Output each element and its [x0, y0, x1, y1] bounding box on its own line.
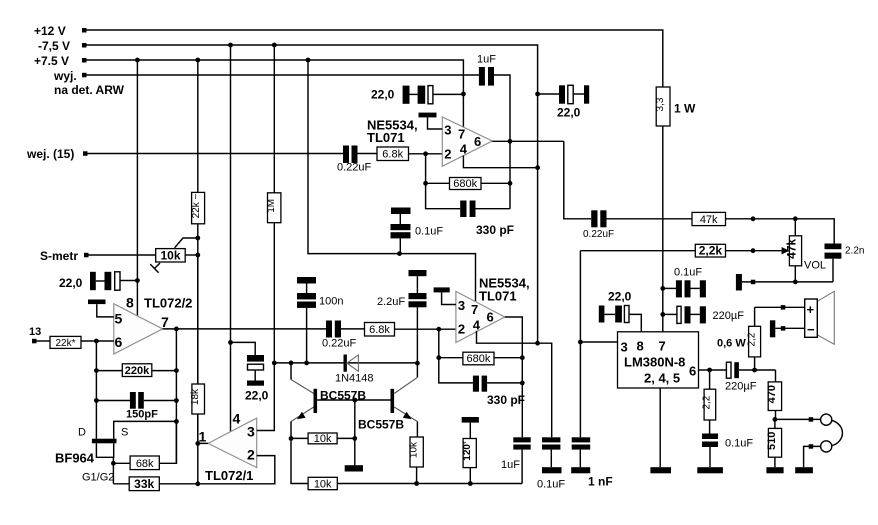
wire +7.5V drop to op2 pin7: [308, 60, 476, 302]
svg-text:33k: 33k: [134, 477, 154, 491]
resistor 220k: [96, 364, 176, 377]
resistor 680k (op2 feedback): [436, 329, 522, 383]
svg-text:0,6 W: 0,6 W: [717, 338, 746, 350]
svg-text:5: 5: [115, 311, 123, 327]
node wyj. na det. ARW label: [53, 69, 125, 97]
svg-text:3,3: 3,3: [655, 97, 666, 111]
svg-text:680k: 680k: [453, 178, 477, 190]
ground bar at TL072/2 pin5: [88, 300, 114, 317]
svg-text:TL072/2: TL072/2: [144, 296, 192, 311]
svg-text:6: 6: [115, 334, 123, 350]
headphone jack J1: [775, 414, 843, 473]
potentiometer 10k (S-metr): [156, 249, 201, 263]
capacitor 2.2uF (to ground above): [377, 270, 427, 366]
capacitor 0.22uF (TL072/2 out coupling): [322, 321, 365, 350]
svg-text:1M: 1M: [266, 199, 277, 213]
svg-text:3: 3: [444, 123, 451, 138]
svg-text:2,2k: 2,2k: [699, 244, 723, 258]
resistor 470: [766, 370, 782, 419]
svg-text:2,2: 2,2: [747, 332, 758, 346]
svg-text:7: 7: [659, 339, 666, 354]
svg-text:220k: 220k: [125, 365, 150, 377]
capacitor 22,0 (vertical electrolytic at TL072/1): [228, 340, 269, 403]
svg-text:1 nF: 1 nF: [588, 475, 613, 489]
svg-text:2: 2: [458, 322, 465, 337]
svg-text:S: S: [121, 427, 128, 439]
op-amp U2 NE5534/TL071: [367, 117, 492, 166]
capacitor 0.22uF (op1 out to 47k): [564, 141, 692, 240]
capacitor 0.1uF (op2 V- decoupling): [537, 437, 565, 490]
svg-text:2, 4, 5: 2, 4, 5: [644, 371, 680, 386]
capacitor 0.1uF (snubber): [697, 434, 753, 474]
capacitor 1uF (wyj. ARW output): [477, 54, 510, 209]
resistor 680k (op1 feedback): [423, 154, 512, 209]
capacitor 22,0 (bypass +7.5 at op1): [371, 86, 463, 104]
wire 2,2k corner down to LM380 pin3 and 1nF: [578, 251, 618, 438]
wire feedback left rail (pin6 to drain): [94, 341, 99, 439]
resistor 33k: [113, 477, 200, 491]
capacitor 1nF: [571, 437, 612, 488]
wire -7.5V rail: [82, 43, 540, 346]
resistor 10k (bottom row): [291, 438, 522, 490]
svg-text:10k: 10k: [314, 433, 332, 445]
svg-text:22,0: 22,0: [371, 88, 395, 102]
svg-text:D: D: [78, 427, 86, 439]
wire op2 pin4 to -7.5V and 0.1uF: [477, 331, 552, 438]
capacitor 150pF: [96, 392, 176, 421]
svg-text:G1/G2: G1/G2: [82, 472, 114, 484]
svg-text:220µF: 220µF: [725, 381, 757, 393]
capacitor 22,0 (bypass at TL072/2 pin8): [59, 272, 140, 290]
svg-text:10k: 10k: [314, 478, 332, 490]
svg-text:150pF: 150pF: [126, 409, 158, 421]
wiper arrow of 10k pot: [150, 236, 200, 273]
resistor 2,2k (to LM380 input): [580, 244, 789, 258]
svg-text:+12 V: +12 V: [34, 24, 66, 38]
svg-text:4: 4: [473, 318, 481, 333]
svg-text:BF964: BF964: [55, 451, 95, 466]
wire op1 output node: [492, 139, 564, 144]
svg-text:4: 4: [233, 411, 241, 427]
svg-text:0.1uF: 0.1uF: [725, 438, 753, 450]
wire -7.5V drop to TL072/1 pin4: [230, 45, 232, 432]
svg-text:wyj.: wyj.: [53, 69, 77, 83]
svg-text:6: 6: [487, 310, 494, 325]
svg-text:4: 4: [460, 142, 468, 157]
capacitor 120' (boxed, to ground above): [462, 417, 479, 484]
svg-text:8: 8: [637, 339, 644, 354]
svg-text:10k: 10k: [409, 441, 420, 458]
resistor 22k~ (vertical, from +7.5V): [191, 60, 205, 384]
svg-text:510: 510: [766, 432, 778, 450]
svg-text:0.1uF: 0.1uF: [674, 267, 702, 279]
svg-text:3: 3: [458, 298, 465, 313]
wire S-metr line: [84, 253, 156, 257]
svg-text:680k: 680k: [466, 353, 490, 365]
svg-text:330 pF: 330 pF: [487, 393, 525, 407]
wire wej input line: [83, 151, 343, 156]
speaker LS1: [805, 291, 835, 344]
capacitor 1uF (op2 out to AGC line): [501, 437, 531, 483]
wire feedback right rail (output down): [174, 329, 179, 463]
resistor 2,2 (snubber): [702, 370, 716, 434]
transistor Q2 BC557B (mirrored): [358, 363, 417, 437]
ground bar (speaker -): [770, 320, 805, 337]
resistor 10k (vertical at Q2 emitter): [409, 437, 424, 484]
svg-text:+: +: [807, 302, 815, 317]
resistor 22k* (input): [50, 336, 114, 348]
wire speaker +: [755, 305, 805, 310]
resistor 47k: [692, 212, 834, 243]
resistor 10k (emitter-base): [289, 433, 355, 445]
capacitor 100n (to ground above): [297, 277, 343, 363]
svg-text:22k*: 22k*: [55, 338, 75, 349]
svg-text:22,0: 22,0: [59, 276, 83, 290]
wire +12V rail: [82, 28, 663, 87]
resistor 68k: [113, 421, 176, 469]
svg-text:7: 7: [161, 314, 169, 330]
svg-text:10k: 10k: [160, 249, 180, 263]
svg-text:100n: 100n: [319, 296, 343, 308]
svg-text:18k: 18k: [190, 388, 201, 405]
svg-text:68k: 68k: [136, 458, 154, 470]
svg-text:6: 6: [474, 134, 481, 149]
svg-text:VOL: VOL: [804, 260, 826, 272]
op-amp U3 NE5534/TL071: [456, 276, 530, 343]
resistor 6.8k (op1 input): [377, 147, 442, 161]
resistor 6.8k (op2 input): [365, 323, 456, 337]
svg-text:0.22uF: 0.22uF: [583, 229, 614, 240]
svg-text:0.22uF: 0.22uF: [322, 338, 357, 350]
resistor 510: [766, 417, 784, 473]
op-amp U1a TL072/1 (points left): [199, 411, 257, 484]
resistor 3,3 1W (from +12V): [655, 87, 696, 332]
wire TL072/1 output and feedback loop: [195, 414, 274, 484]
capacitor 0.1uF (op2 supply decoupling): [391, 208, 444, 254]
svg-text:3: 3: [247, 424, 255, 440]
wire op1 pin4 to -7.5V: [463, 156, 537, 168]
svg-text:-7,5 V: -7,5 V: [38, 39, 70, 53]
ground bar at op2 pin3: [434, 287, 456, 304]
svg-text:TL072/1: TL072/1: [205, 468, 253, 483]
svg-text:6.8k: 6.8k: [382, 149, 403, 161]
svg-text:1uF: 1uF: [477, 54, 496, 66]
wire LM380 pin6 output: [699, 368, 727, 373]
ground bar (bases): [345, 465, 363, 471]
svg-text:+7.5 V: +7.5 V: [34, 54, 69, 68]
potentiometer 47k VOL: [785, 219, 827, 282]
svg-text:330 pF: 330 pF: [476, 223, 514, 237]
svg-text:2,2: 2,2: [702, 395, 713, 409]
op-amp U1b TL072/2: [114, 295, 193, 355]
svg-text:120‛: 120‛: [462, 441, 473, 461]
wire wyj. rail to 1uF: [82, 73, 479, 78]
svg-text:wej. (15): wej. (15): [26, 147, 74, 161]
svg-text:BC557B: BC557B: [358, 418, 404, 432]
capacitor 22,0 (bypass -7.5V): [538, 85, 590, 119]
wire LM380 ground pins 2,4,5: [650, 388, 671, 473]
svg-text:−: −: [807, 322, 815, 337]
svg-text:7: 7: [471, 302, 478, 317]
svg-text:1 W: 1 W: [674, 102, 696, 116]
svg-text:2.2uF: 2.2uF: [377, 296, 405, 308]
svg-text:47k: 47k: [700, 214, 718, 226]
wire +7.5V drop to TL072/2 pin 8: [136, 60, 138, 316]
svg-text:TL071: TL071: [479, 289, 517, 304]
svg-text:na det. ARW: na det. ARW: [54, 83, 125, 97]
svg-text:3: 3: [621, 340, 628, 355]
svg-text:22,0: 22,0: [245, 389, 269, 403]
svg-text:2.2n: 2.2n: [845, 246, 864, 257]
capacitor 2.2n: [825, 244, 865, 282]
svg-text:47k: 47k: [785, 238, 799, 258]
svg-text:TL071: TL071: [367, 130, 405, 145]
wire TL072/2 output node: [163, 327, 326, 332]
transistor Q1 BC557B: [291, 363, 366, 439]
node 13 input: [29, 326, 50, 343]
svg-text:LM380N-8: LM380N-8: [624, 355, 685, 370]
ground bar at op1 pin3: [419, 113, 443, 129]
svg-text:2: 2: [444, 147, 451, 162]
wire +7.5V rail: [82, 58, 466, 128]
capacitor 22,0 (LM380 pin8 bypass): [599, 290, 642, 332]
wire base to ground: [352, 400, 357, 466]
svg-text:6.8k: 6.8k: [369, 324, 390, 336]
svg-text:0.1uF: 0.1uF: [415, 226, 443, 238]
svg-text:0.1uF: 0.1uF: [537, 479, 565, 491]
ground bar (volume return): [736, 274, 833, 291]
capacitor 0.22uF (wej input): [337, 146, 377, 174]
svg-text:S-metr: S-metr: [40, 249, 78, 263]
resistor 1M (vertical, from -7.5V): [266, 45, 281, 363]
svg-text:1uF: 1uF: [501, 459, 520, 471]
wire base line Q1-Q2: [317, 398, 390, 403]
capacitor 330pF (op2 feedback): [473, 376, 525, 407]
svg-text:0.22uF: 0.22uF: [337, 162, 372, 174]
transistor Q3 BF964 (dual-gate MOSFET): [55, 421, 176, 483]
capacitor 220uF (supply electrolytic): [663, 306, 744, 323]
resistor 18k (vertical): [190, 255, 205, 443]
resistor 2,2 0,6W (to speaker): [717, 307, 761, 370]
diode D1 1N4148 line: [274, 355, 417, 385]
wire op2 output down: [505, 317, 525, 437]
capacitor 330pF (op1 feedback): [460, 201, 514, 238]
svg-text:1N4148: 1N4148: [335, 373, 374, 385]
capacitor 0.1uF (supply decoupling): [663, 267, 706, 298]
wire TL072/1 pin3 up to 1M node: [257, 361, 277, 431]
svg-text:22,0: 22,0: [557, 106, 581, 120]
svg-text:8: 8: [126, 295, 134, 311]
capacitor 220uF (output coupling): [725, 362, 776, 392]
svg-text:13: 13: [29, 326, 41, 338]
svg-text:22k ~: 22k ~: [191, 193, 202, 218]
svg-text:470: 470: [766, 385, 778, 403]
svg-text:2: 2: [247, 447, 255, 463]
IC U4 LM380N-8: [618, 332, 699, 388]
svg-text:7: 7: [458, 127, 465, 142]
svg-text:220µF: 220µF: [713, 310, 745, 322]
svg-text:22,0: 22,0: [608, 290, 632, 304]
svg-text:6: 6: [689, 364, 696, 379]
